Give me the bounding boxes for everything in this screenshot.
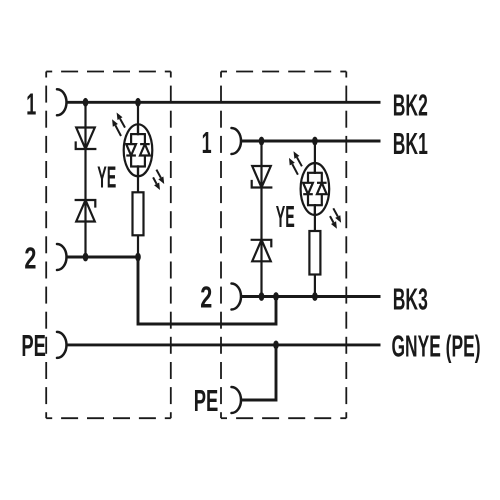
svg-text:BK1: BK1 xyxy=(393,126,428,161)
resistor R1 xyxy=(133,192,144,235)
resistor R2 xyxy=(309,231,320,275)
junction pin2L-V2 xyxy=(83,253,89,262)
wire right LED branch top xyxy=(314,141,316,174)
LED V6 (yellow, anti-parallel pair) xyxy=(301,163,330,215)
wire GNYE net: X1 PE to GNYE xyxy=(66,343,380,346)
junction pin2R-R2 xyxy=(312,292,318,301)
wire X2 PE loop to GNYE net xyxy=(241,345,276,400)
LED V3 (yellow, anti-parallel pair) xyxy=(124,124,153,176)
svg-text:2: 2 xyxy=(24,241,36,276)
svg-text:BK2: BK2 xyxy=(393,88,428,123)
suppressor diode V1 (zener, cathode down) xyxy=(76,128,96,150)
socket contact pin 2 X2 xyxy=(232,284,242,310)
wire right LED-resistor link xyxy=(314,204,316,232)
wire BK3 net: X2 pin2 to BK3 xyxy=(241,295,381,298)
wire X1 pin2 horizontal xyxy=(67,256,139,259)
wire left suppressor branch xyxy=(84,102,86,257)
svg-text:PE: PE xyxy=(21,328,46,363)
svg-text:BK3: BK3 xyxy=(393,282,428,317)
connector housing X1 left (dashed outline) xyxy=(46,72,171,419)
wire BK1 net: X2 pin1 to BK1 xyxy=(241,140,381,143)
connector housing X2 right (dashed outline) xyxy=(221,72,346,419)
junction pin2L-R1 xyxy=(135,253,141,262)
svg-text:YE: YE xyxy=(97,159,116,194)
svg-text:1: 1 xyxy=(202,125,212,160)
junction pin1L-V1 xyxy=(83,98,89,107)
light emission arrows V3 xyxy=(112,113,164,191)
wire left LED-resistor link xyxy=(137,165,139,193)
svg-text:1: 1 xyxy=(26,86,36,121)
junction pin2R-V5 xyxy=(259,292,265,301)
suppressor diode V5 (zener, cathode up) xyxy=(252,240,272,261)
junction PE-loop xyxy=(273,341,279,350)
svg-text:YE: YE xyxy=(276,199,295,234)
suppressor diode V4 (zener, cathode down) xyxy=(252,166,272,188)
wire BK2 net: X1 pin1 to BK2 xyxy=(67,101,381,104)
socket contact PE X1 xyxy=(57,332,67,358)
wire right suppressor branch xyxy=(260,141,262,297)
svg-text:GNYE (PE): GNYE (PE) xyxy=(392,328,481,363)
svg-text:PE: PE xyxy=(194,383,219,418)
junction pin2R-loop xyxy=(273,292,279,301)
junction pin1R-LED xyxy=(312,137,318,146)
socket contact pin 2 X1 xyxy=(57,244,67,270)
junction pin1R-V4 xyxy=(259,137,265,146)
socket contact pin 1 X1 xyxy=(57,89,67,115)
socket contact PE X2 xyxy=(232,387,242,413)
suppressor diode V2 (zener, cathode up) xyxy=(76,200,96,222)
socket contact pin 1 X2 xyxy=(232,128,242,154)
wire X1 pin2 loop to BK3 net xyxy=(138,257,276,324)
wire left resistor branch bottom xyxy=(137,235,139,257)
svg-text:2: 2 xyxy=(200,280,212,315)
wire right resistor branch bottom xyxy=(314,274,316,297)
light emission arrows V6 xyxy=(289,151,341,229)
wire left LED branch top xyxy=(137,102,139,135)
junction pin1L-LED xyxy=(135,98,141,107)
